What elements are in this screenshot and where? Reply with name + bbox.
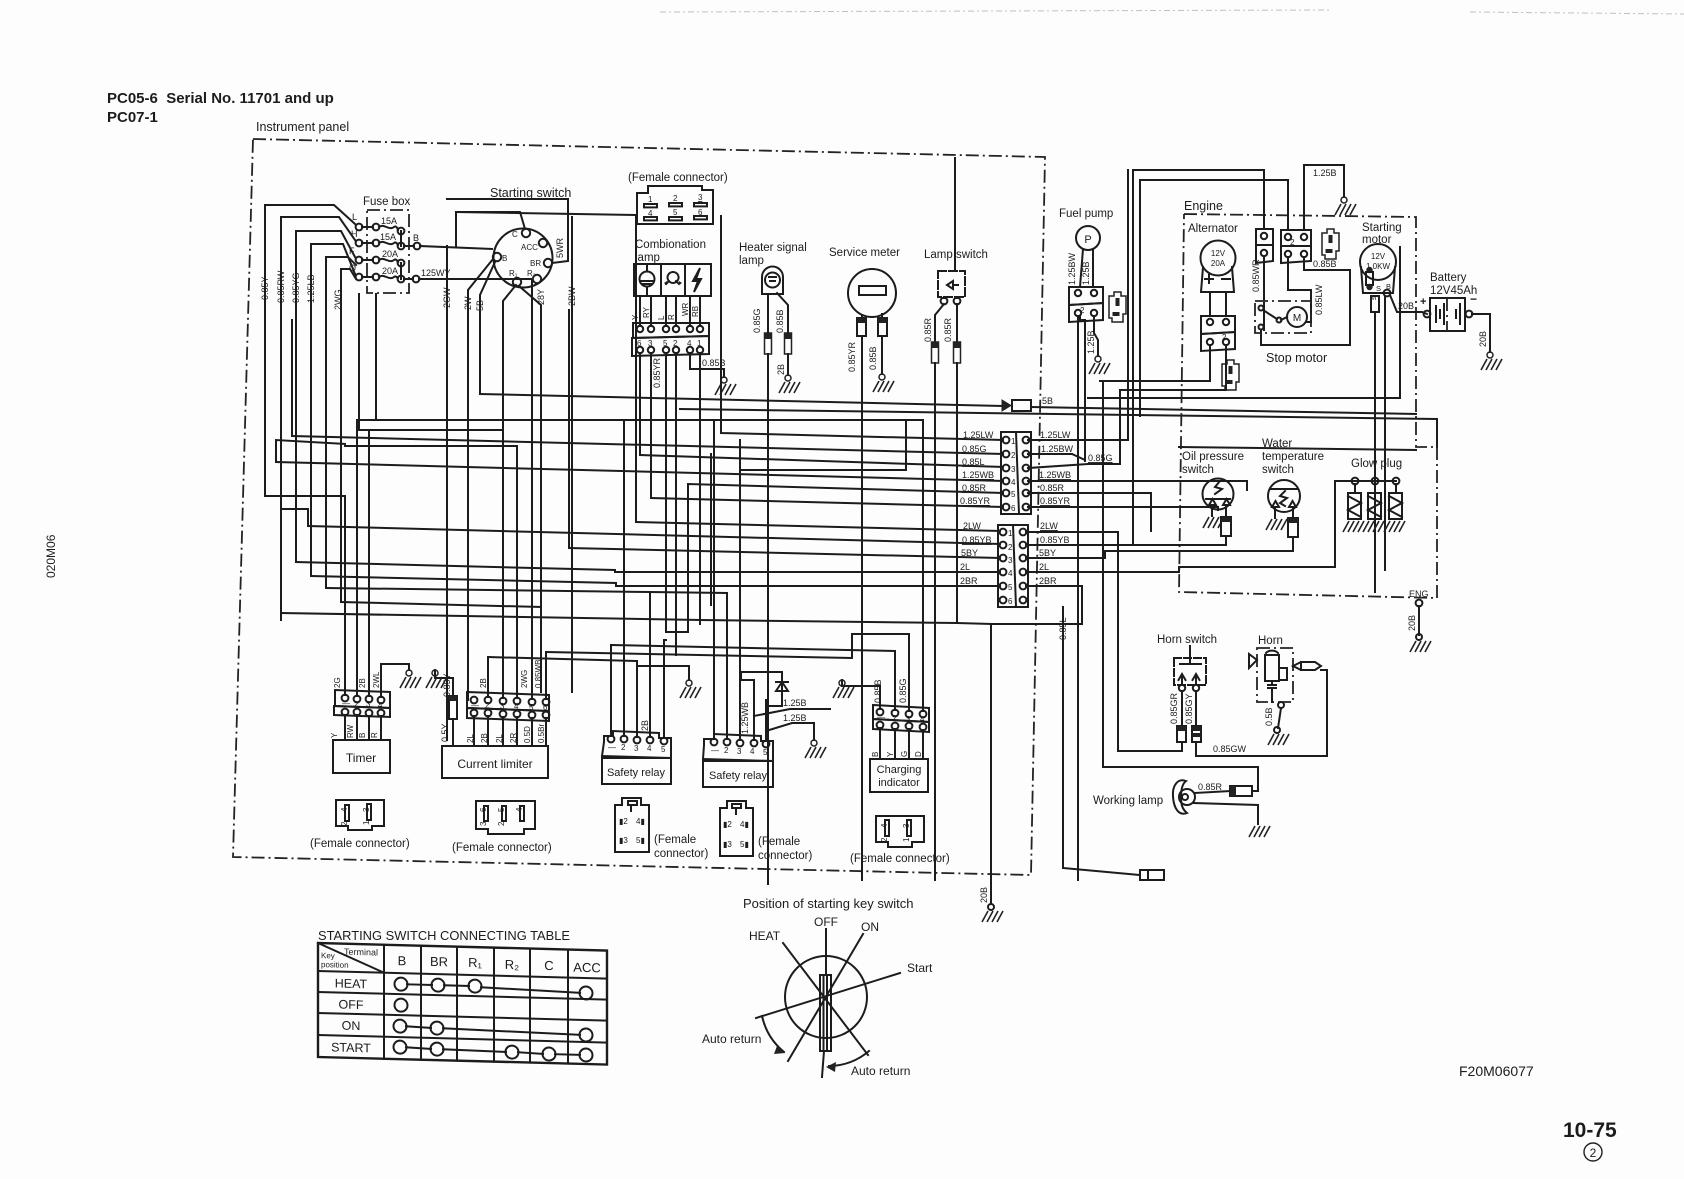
svg-text:—: —: [342, 699, 350, 708]
svg-text:2WG: 2WG: [333, 289, 343, 310]
svg-text:Battery: Battery: [1430, 272, 1467, 284]
ground eng: [1410, 641, 1431, 652]
ground service meter: [873, 374, 894, 392]
charging indicator lower leads: [871, 728, 923, 759]
svg-text:indicator: indicator: [878, 777, 920, 789]
wire bus y656: [546, 634, 909, 658]
wire 0.85YG: [291, 231, 355, 562]
battery: [1420, 292, 1477, 331]
svg-text:Fuse box: Fuse box: [363, 196, 411, 208]
svg-text:0.85YG: 0.85YG: [291, 272, 301, 303]
wire bus y606: [341, 602, 541, 607]
svg-text:ACC: ACC: [521, 243, 538, 252]
wire CI labels: [873, 678, 908, 703]
horn switch: [1174, 646, 1206, 691]
svg-text:3: 3: [1008, 556, 1013, 565]
svg-text:020M06: 020M06: [44, 534, 58, 578]
wire riser x700: [699, 620, 701, 624]
wire CN1 pin5 feed 0.85R: [666, 484, 1003, 632]
svg-text:0.5Y: 0.5Y: [440, 723, 450, 742]
svg-text:R₂: R₂: [527, 269, 536, 278]
ON row contacts: [394, 1019, 593, 1041]
svg-text:R₂: R₂: [505, 957, 519, 972]
battery label: [1430, 272, 1477, 297]
wire horn switch 1 to bus: [1181, 742, 1183, 751]
alternator: [1201, 241, 1236, 317]
wire 0.5B horn to ground: [1264, 702, 1284, 733]
svg-text:0.85YB: 0.85YB: [1040, 535, 1070, 545]
svg-text:1: 1: [902, 837, 911, 842]
svg-text:0.85G: 0.85G: [752, 308, 762, 333]
svg-text:1.25B: 1.25B: [1313, 168, 1337, 178]
svg-text:6: 6: [1011, 504, 1016, 513]
wire bus y620b: [700, 620, 991, 624]
svg-text:4: 4: [340, 807, 349, 812]
svg-text:(Female connector): (Female connector): [310, 838, 410, 850]
safety relay 1 terminals: [602, 731, 671, 758]
wire 0.85R working lamp: [1195, 782, 1230, 793]
svg-text:1.25LB: 1.25LB: [306, 274, 316, 303]
wire eng conn feeds: [1288, 170, 1304, 230]
wire bus y416: [680, 409, 1437, 447]
svg-text:2: 2: [621, 743, 626, 752]
header title PC05-6: [107, 90, 334, 126]
female connector SR1: [615, 798, 649, 852]
svg-text:Timer: Timer: [346, 751, 376, 765]
wire CL pin5 feed: [531, 279, 533, 699]
wire bus y420 right: [624, 419, 923, 421]
bullet connector horn: [1293, 662, 1321, 670]
wire CN2 pin1 feed 2LW: [636, 522, 1000, 531]
svg-text:Current limiter: Current limiter: [457, 757, 532, 771]
svg-text:2L: 2L: [1039, 562, 1049, 572]
fuse horn switch 2: [1192, 726, 1201, 742]
wire stop motor loop: [1261, 270, 1350, 345]
svg-text:3: 3: [1011, 465, 1016, 474]
fuse oil pressure: [1221, 517, 1231, 536]
svg-text:2: 2: [1011, 451, 1016, 460]
svg-text:2: 2: [673, 194, 678, 203]
wire 5B bus right: [1031, 407, 1416, 414]
female connector top: [637, 186, 713, 224]
svg-text:2: 2: [1222, 333, 1227, 342]
svg-text:20B: 20B: [1407, 615, 1417, 631]
svg-text:BR: BR: [530, 259, 541, 268]
svg-text:2BW: 2BW: [567, 286, 577, 306]
svg-text:ON: ON: [342, 1019, 361, 1033]
svg-text:L: L: [657, 315, 666, 320]
svg-text:Fuel pump: Fuel pump: [1059, 208, 1113, 220]
svg-text:2L: 2L: [466, 734, 475, 743]
female connector SR2 label: [758, 836, 813, 862]
svg-text:0.85B: 0.85B: [702, 358, 726, 368]
svg-text:0.5Br: 0.5Br: [537, 724, 546, 743]
wire 2BW: [567, 217, 577, 692]
svg-text:4: 4: [1008, 569, 1013, 578]
svg-text:S: S: [1376, 284, 1381, 293]
fuse heater 0.85G: [765, 333, 772, 354]
wire oil pressure out: [1133, 170, 1226, 545]
wire comb pin3 0.85YR down: [651, 353, 662, 498]
fuse 0.5Y: [440, 696, 457, 746]
terminal R1: [509, 269, 521, 286]
wire w5: [326, 257, 356, 588]
svg-text:4: 4: [647, 744, 652, 753]
svg-text:1.25BW: 1.25BW: [1067, 252, 1077, 285]
connecting table: [318, 943, 607, 1065]
wire 0.85L to bullet: [1063, 868, 1140, 875]
wire CL pin4 feed 2WG: [516, 446, 518, 698]
svg-text:ACC: ACC: [573, 960, 600, 976]
svg-text:2B: 2B: [479, 678, 488, 688]
svg-text:5▮: 5▮: [636, 836, 645, 845]
wire CN2 pin2 left riser: [281, 509, 308, 526]
starting motor label: [1362, 222, 1402, 246]
ground SR2: [805, 740, 826, 758]
svg-text:15A: 15A: [381, 216, 397, 226]
svg-text:1.25BW: 1.25BW: [1041, 444, 1074, 454]
wire CN1 out 2 1.25BW: [1028, 316, 1085, 462]
key switch START axis: [756, 961, 933, 1018]
heater signal lamp label: [739, 242, 807, 267]
wire comb pin1 down: [699, 353, 701, 620]
wire 0.85B service to ground: [868, 336, 882, 374]
svg-text:0.85Y: 0.85Y: [442, 673, 452, 697]
svg-text:20A: 20A: [382, 249, 398, 259]
svg-text:2: 2: [1008, 543, 1013, 552]
svg-text:R₁: R₁: [509, 269, 518, 278]
fuse F1 15A: [352, 212, 404, 234]
charging indicator box: [870, 759, 928, 792]
wire riser x1140: [1139, 180, 1141, 416]
wire CI pin feeds: [842, 420, 923, 711]
svg-text:0.85YR: 0.85YR: [1040, 496, 1071, 506]
svg-text:D: D: [914, 751, 923, 757]
svg-text:20A: 20A: [382, 266, 398, 276]
wire 1.25B fuel to ground: [1086, 316, 1098, 356]
wire 0.85RW: [276, 217, 355, 620]
wire bus y680 heater run: [767, 880, 769, 884]
wire bus y591: [326, 588, 650, 592]
svg-text:1.25B: 1.25B: [783, 713, 807, 723]
svg-text:L: L: [352, 212, 357, 222]
fuse working lamp: [1230, 786, 1252, 796]
combination lamp leads: [640, 296, 700, 326]
wire 1.25B jumper 2: [766, 713, 814, 740]
svg-text:5B: 5B: [475, 300, 485, 311]
svg-text:RY: RY: [642, 306, 651, 318]
alternator connector: [1201, 316, 1235, 351]
ground comb lamp: [715, 377, 736, 395]
svg-text:2BR: 2BR: [1039, 576, 1057, 586]
svg-text:0.85RW: 0.85RW: [276, 270, 286, 303]
wire CN2 out 2 0.85YB: [1026, 544, 1133, 546]
svg-text:3: 3: [634, 744, 639, 753]
svg-text:2WG: 2WG: [520, 670, 529, 688]
CN1 left labels: [960, 430, 994, 506]
water temperature switch label: [1262, 438, 1324, 476]
wire bus y665: [637, 661, 678, 666]
ground water temp: [1266, 519, 1287, 530]
wire battery minus 20B to ground: [1472, 314, 1490, 352]
svg-text:Key: Key: [321, 951, 335, 960]
wire 20B drop: [979, 624, 994, 910]
wire SR1 ground link: [678, 666, 689, 680]
svg-text:3: 3: [902, 823, 911, 828]
svg-text:2: 2: [340, 821, 349, 826]
key switch OFF axis: [814, 915, 838, 1077]
svg-text:3: 3: [698, 193, 703, 202]
ground charging indicator: [833, 680, 854, 698]
female connector SR1 label: [654, 834, 709, 860]
glow plug 1: [1348, 478, 1361, 519]
combination lamp connector: [632, 323, 709, 356]
svg-text:0.85R: 0.85R: [1040, 483, 1065, 493]
wire bus y420 left: [357, 419, 624, 421]
wire riser x711: [710, 454, 712, 605]
svg-text:2: 2: [724, 746, 729, 755]
svg-text:0.85Y: 0.85Y: [260, 276, 270, 300]
wire CN1 pin4 feed 1.25WB: [276, 462, 1003, 481]
wire CN2 out 4 2L: [1026, 567, 1179, 572]
HEAT row contacts: [395, 978, 593, 1000]
wire 20B to battery: [1390, 295, 1427, 314]
current limiter connector: [467, 692, 549, 721]
svg-text:Heater signal: Heater signal: [739, 242, 807, 254]
svg-text:▮3: ▮3: [723, 840, 732, 849]
diode 5B component: [1002, 396, 1053, 411]
ground heater lamp: [779, 375, 800, 393]
svg-text:12V: 12V: [1371, 252, 1386, 261]
svg-text:0.85B: 0.85B: [873, 679, 883, 703]
wire bus y620: [281, 613, 700, 620]
ground working lamp: [1249, 826, 1270, 837]
svg-text:5▮: 5▮: [740, 840, 749, 849]
fuel pump: [1076, 226, 1100, 250]
START row contacts: [394, 1040, 593, 1061]
wire CN1 pin2 left riser: [291, 320, 293, 436]
wire 2GW: [420, 246, 492, 740]
svg-text:−: −: [1470, 292, 1477, 306]
wire bus y640: [664, 639, 666, 641]
ground 1.25B top: [1335, 197, 1356, 215]
glow plug bus: [1335, 480, 1396, 482]
svg-text:6: 6: [1008, 597, 1013, 606]
svg-text:connector): connector): [758, 850, 813, 862]
wire top run from panel: [1133, 169, 1264, 171]
key switch dial: [785, 956, 867, 1051]
svg-text:position: position: [321, 960, 349, 970]
wire CN1 pin4 left riser: [276, 440, 345, 462]
svg-text:2G: 2G: [333, 677, 342, 688]
svg-text:5BY: 5BY: [1039, 548, 1056, 558]
svg-text:—: —: [711, 746, 719, 755]
wire CN2 pin3 left riser: [568, 310, 570, 548]
service meter leads: [862, 314, 882, 318]
svg-text:3: 3: [737, 747, 742, 756]
wire working lamp feed: [1103, 767, 1258, 791]
svg-text:4: 4: [880, 823, 889, 828]
svg-text:lamp: lamp: [739, 255, 764, 267]
svg-text:connector): connector): [654, 848, 709, 860]
svg-text:2: 2: [1080, 306, 1085, 315]
svg-text:2BR: 2BR: [960, 576, 978, 586]
svg-text:Y: Y: [330, 732, 339, 738]
connector double eng: [1281, 230, 1311, 263]
wire top bus to switch: [447, 198, 568, 200]
ground fuel pump: [1089, 356, 1110, 374]
svg-text:C: C: [512, 230, 518, 239]
svg-text:2WL: 2WL: [372, 671, 381, 688]
svg-text:B: B: [398, 953, 407, 968]
svg-text:PC07-1: PC07-1: [107, 109, 158, 126]
svg-text:1.25WB: 1.25WB: [740, 702, 750, 734]
svg-text:0.85R: 0.85R: [943, 317, 953, 342]
svg-text:4: 4: [515, 807, 524, 812]
svg-text:Safety relay: Safety relay: [607, 767, 666, 779]
wire CN1 pin2 feed 0.85G: [292, 436, 1003, 454]
glow plug 3: [1389, 478, 1402, 519]
svg-text:(Female connector): (Female connector): [850, 853, 950, 865]
svg-text:Horn: Horn: [1258, 635, 1283, 647]
wire 5B: [475, 262, 495, 394]
svg-text:Start: Start: [907, 961, 933, 975]
fuse bus link rows 3-4: [400, 263, 402, 279]
current limiter box: [442, 746, 548, 778]
wire 0.85Y: [260, 205, 355, 496]
wire timer pin1 feed 2G: [344, 496, 346, 695]
svg-text:4: 4: [1011, 478, 1016, 487]
svg-text:0.85B: 0.85B: [868, 346, 878, 370]
svg-text:R: R: [667, 314, 676, 320]
svg-text:0.85B: 0.85B: [1313, 259, 1337, 269]
wire 0.85WR: [1251, 170, 1264, 300]
svg-text:2L: 2L: [495, 734, 504, 743]
lead labels Y RY L R WR RB: [631, 302, 700, 320]
charging indicator connector: [873, 705, 929, 732]
lamp switch terminals: [941, 297, 961, 304]
wire CL pin3 feed: [503, 285, 516, 698]
starting motor M lead: [1371, 296, 1379, 592]
svg-text:1: 1: [1008, 529, 1013, 538]
circled 2: [1584, 1143, 1602, 1161]
wire CN1 out 4 1.25WB: [1028, 481, 1247, 490]
timer wire labels: [333, 671, 381, 688]
female connector CI: [876, 816, 924, 847]
svg-text:B: B: [502, 254, 507, 263]
engine inner partition: [1179, 447, 1416, 450]
svg-text:4▮: 4▮: [740, 820, 749, 829]
faint page top edge marks: [660, 10, 1684, 14]
wire 0.85R lamp switch 1: [923, 304, 944, 342]
svg-text:P: P: [1084, 234, 1091, 246]
svg-text:HEAT: HEAT: [335, 976, 368, 991]
wire bus y660: [488, 657, 637, 661]
wire 5B bus: [480, 394, 1002, 406]
svg-text:Working lamp: Working lamp: [1093, 795, 1163, 807]
wire 0.85B heater: [775, 293, 788, 333]
svg-text:0.85YR: 0.85YR: [960, 496, 991, 506]
key switch ON axis: [788, 920, 879, 1061]
svg-text:BR: BR: [430, 954, 448, 969]
svg-text:(Female: (Female: [758, 836, 800, 848]
svg-text:20B: 20B: [1478, 331, 1488, 347]
svg-text:5: 5: [497, 807, 506, 812]
node 125WY output: [404, 268, 451, 282]
wire bus y470: [740, 420, 906, 470]
safety relay 1 box: [602, 758, 671, 784]
svg-text:1.25WB: 1.25WB: [1039, 470, 1071, 480]
svg-text:5: 5: [1011, 490, 1016, 499]
wire 1.25B fuel: [1081, 249, 1093, 287]
svg-text:2GW: 2GW: [442, 287, 452, 308]
svg-text:5: 5: [763, 748, 768, 757]
wire fuse L down: [358, 294, 360, 430]
ground glow 2: [1363, 521, 1384, 532]
wire bus y446: [345, 445, 517, 447]
fuse heater 0.85B: [785, 333, 792, 354]
svg-text:2B: 2B: [358, 678, 367, 688]
auto return right: [826, 1051, 910, 1078]
wire CL pin2 feed: [487, 657, 489, 697]
starting motor: [1360, 244, 1396, 302]
svg-text:(Female connector): (Female connector): [628, 172, 728, 184]
svg-text:5WR: 5WR: [555, 238, 565, 259]
ground current limiter: [426, 670, 447, 688]
svg-text:0.85WB: 0.85WB: [534, 660, 543, 688]
wire comb pin5 down: [665, 353, 667, 632]
svg-text:20A: 20A: [1211, 259, 1226, 268]
wire timer pin3 feed 2B: [368, 430, 370, 696]
terminal C: [512, 229, 530, 239]
svg-text:6: 6: [479, 807, 488, 812]
diode SR2: [741, 672, 788, 741]
svg-text:switch: switch: [1262, 464, 1294, 476]
fuel pump connector: [1069, 287, 1103, 322]
safety relay 2 terminals: [703, 734, 773, 761]
stop motor box: [1255, 301, 1311, 333]
svg-text:Oil pressure: Oil pressure: [1182, 451, 1244, 463]
wire lamp switch 2 down: [956, 363, 958, 623]
wire 20B eng to ground: [1407, 606, 1422, 640]
ground glow 3: [1384, 521, 1405, 532]
glow plug 2: [1368, 478, 1381, 519]
svg-text:1: 1: [648, 195, 653, 204]
svg-text:R₁: R₁: [468, 955, 482, 970]
svg-text:0.85YR: 0.85YR: [847, 341, 857, 372]
svg-text:RB: RB: [691, 306, 700, 317]
female connector current limiter: [476, 801, 535, 834]
wire timer pin2 feed: [356, 420, 358, 696]
key switch HEAT axis: [749, 929, 868, 1055]
svg-text:0.85GR: 0.85GR: [1169, 692, 1179, 724]
svg-text:Engine: Engine: [1184, 199, 1223, 213]
heater signal lamp: [762, 267, 783, 295]
ground battery: [1481, 352, 1502, 370]
wire comb pin6 down: [639, 353, 641, 455]
glow plug feed: [1179, 481, 1335, 567]
wire C feed: [456, 212, 525, 246]
svg-text:0.5B: 0.5B: [1264, 707, 1274, 726]
svg-text:1.25B: 1.25B: [783, 698, 807, 708]
svg-text:F20M06077: F20M06077: [1459, 1063, 1534, 1079]
wire 28Y: [519, 286, 546, 692]
svg-text:ON: ON: [861, 920, 879, 934]
ground horn: [1268, 734, 1289, 745]
svg-text:OFF: OFF: [339, 998, 364, 1013]
working lamp: [1173, 780, 1195, 813]
svg-text:1.25WB: 1.25WB: [962, 470, 994, 480]
